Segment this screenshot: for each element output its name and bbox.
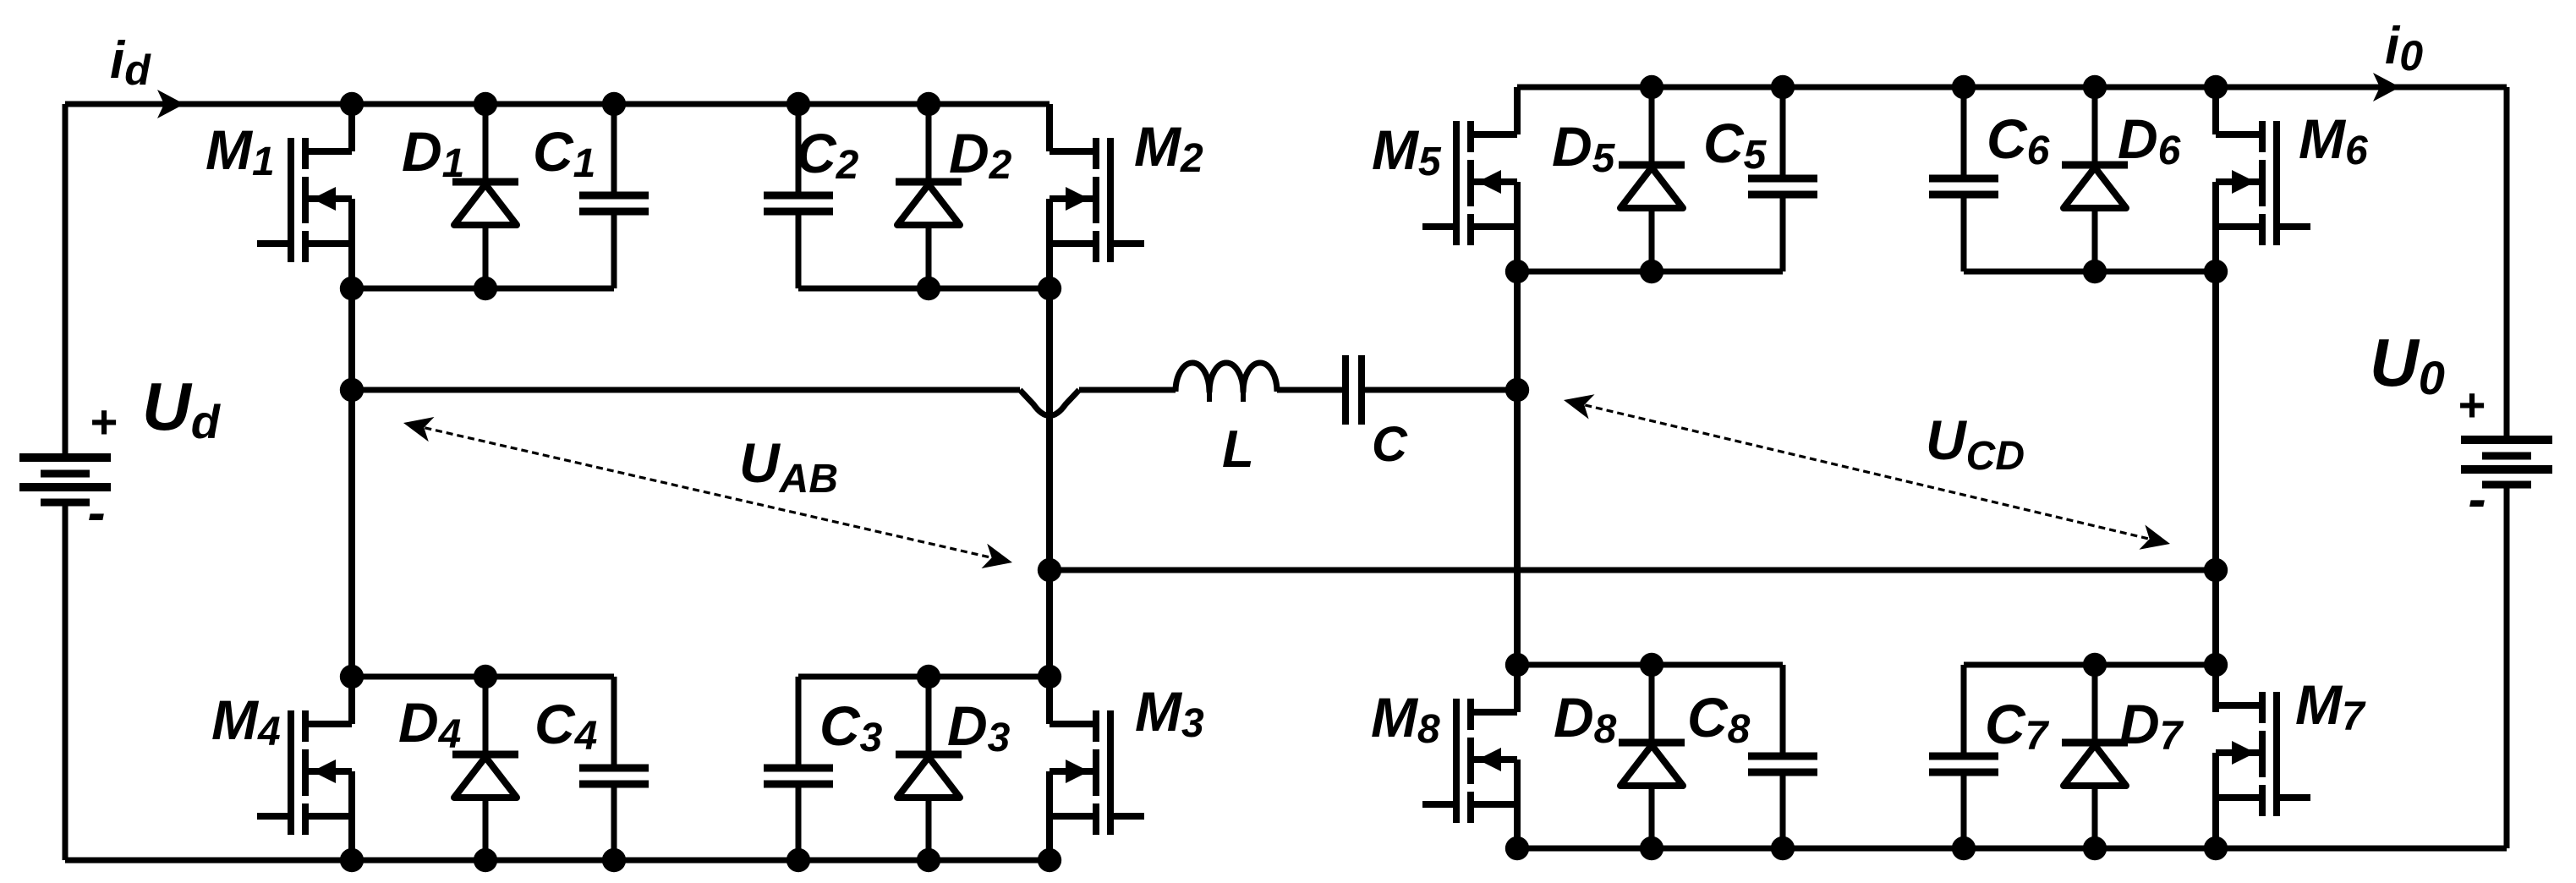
svg-text:+: + bbox=[2458, 378, 2486, 431]
svg-text:+: + bbox=[90, 395, 118, 448]
svg-text:L: L bbox=[1222, 420, 1254, 479]
svg-text:-: - bbox=[87, 482, 105, 543]
svg-text:C: C bbox=[1372, 417, 1408, 472]
svg-text:-: - bbox=[2468, 469, 2486, 529]
